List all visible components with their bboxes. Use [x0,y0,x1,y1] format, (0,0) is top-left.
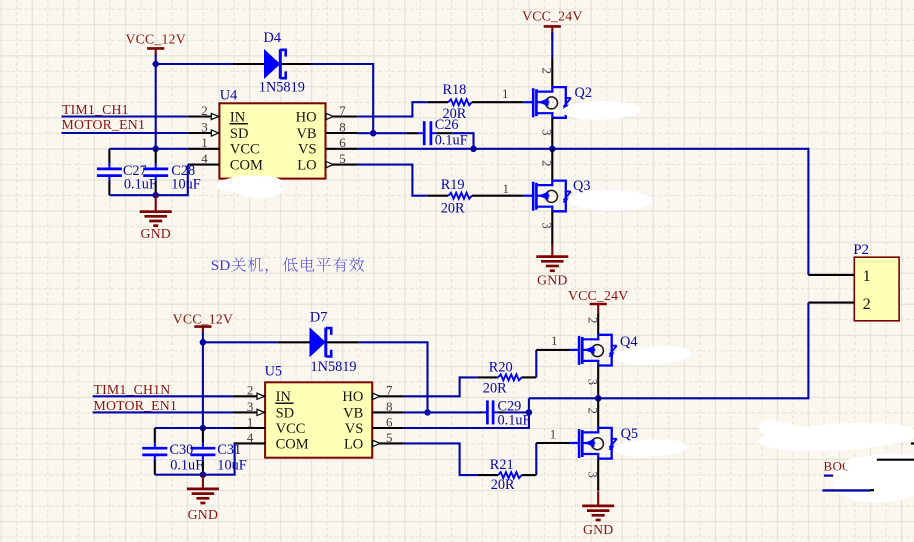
svg-text:VS: VS [298,142,317,158]
svg-text:P2: P2 [853,242,869,258]
junction Q2 source / Q3 drain [549,146,556,153]
svg-text:Q3: Q3 [573,178,590,194]
U4 pin names [230,109,317,173]
power VCC_12V (top) [125,32,185,64]
svg-text:LO: LO [344,436,363,452]
wire U4 LO to R19 [357,165,428,196]
transistor Q3 drain pin [551,149,553,181]
svg-text:C30: C30 [170,442,194,458]
gate pin number 1 of Q3 [502,181,509,196]
junction VB node [370,130,377,137]
svg-text:1: 1 [502,181,509,196]
svg-text:COM: COM [276,436,309,452]
svg-text:GND: GND [188,507,219,522]
wire VS phase node to P2 pin 1 [357,149,808,275]
P2 pin 1 [808,267,870,285]
junction Q4 source / Q5 drain [595,395,602,402]
svg-text:D4: D4 [264,30,281,46]
tick remnant (black) at end of navy line [870,489,874,491]
transistor Q3 [523,160,590,229]
wire D7 to VB node (bottom) [359,342,428,412]
U4 designator [220,88,237,104]
svg-text:1N5819: 1N5819 [259,80,305,96]
U5 designator [265,363,282,379]
svg-text:C26: C26 [435,117,459,133]
wire R20 to Q4 gate [535,350,537,378]
svg-text:VB: VB [343,405,363,421]
op-amp U5 gate driver [265,382,372,457]
P2 pin 2 [808,295,870,313]
resistor R21 20R [478,457,537,493]
wire TIM1_CH1 to U4 IN [62,115,188,117]
ground GND (top left) [140,195,172,241]
svg-text:20R: 20R [483,380,507,396]
diode D7 1N5819 [310,310,357,376]
svg-text:MOTOR_EN1: MOTOR_EN1 [62,117,146,132]
U5 pin numbers [247,383,393,445]
capacitor C29 0.1uF [479,398,531,428]
eraser blob under U4 [216,174,283,194]
svg-text:SD: SD [276,405,295,421]
gate pin number 1 of Q4 [551,333,558,348]
eraser blob over title text [844,457,880,473]
power VCC_24V (top) [522,8,582,57]
svg-text:MOTOR_EN1: MOTOR_EN1 [94,398,178,413]
wire VCC row to decoupling loop [109,148,187,150]
op-amp U4 gate driver [219,103,325,178]
svg-text:0.1uF: 0.1uF [435,132,468,148]
diode D4 1N5819 [259,30,305,95]
svg-text:VCC_12V: VCC_12V [173,311,233,326]
wire U4 VB to C26 [357,132,407,134]
junction C29/VS link [526,409,533,416]
line remnant (black) right edge [877,459,914,461]
svg-text:2: 2 [585,317,600,324]
eraser blob right of Q5 [614,438,689,458]
net label TIM1_CH1N [94,382,171,397]
svg-text:2: 2 [585,407,600,414]
transistor Q4 gate pin [536,349,569,351]
resistor R18 20R [428,82,523,122]
U4 pins [188,113,357,167]
svg-text:1: 1 [550,427,557,442]
U5 pin names [275,389,363,452]
svg-text:0.1uF: 0.1uF [170,457,203,473]
svg-text:R20: R20 [489,359,513,375]
svg-text:COM: COM [230,158,263,174]
net label TIM1_CH1 [62,102,129,117]
wire U4 HO to R18 [357,102,428,116]
svg-text:Q2: Q2 [575,85,592,101]
svg-text:R18: R18 [443,82,467,98]
svg-text:1: 1 [551,333,558,348]
U4 pin numbers [201,103,346,166]
resistor R19 20R [428,177,523,217]
svg-text:VCC: VCC [276,421,306,437]
svg-text:GND: GND [537,273,568,288]
transistor Q4 [569,317,637,385]
diode D4 anode pin [232,63,264,65]
wire VCC row to decoupling loop (bottom) [155,427,234,429]
wire VCC_12V rail down (bottom) [202,342,204,428]
eraser blob bottom right hook [755,416,818,451]
transistor Q2 drain pin [551,58,553,88]
diode D7 anode pin [278,341,310,343]
transistor Q3 source pin [551,211,553,245]
svg-text:10uF: 10uF [171,176,200,192]
svg-text:GND: GND [583,522,614,537]
eraser blob right of Q4 [614,344,693,367]
svg-text:20R: 20R [441,200,465,216]
transistor Q2 source pin [551,118,553,149]
svg-text:U5: U5 [265,363,282,379]
eraser blob right of Q3 [569,190,653,211]
junction GND loop bottom [200,471,207,478]
wire MOTOR_EN1 to U4 SD [62,132,188,134]
resistor R20 20R [478,359,537,396]
svg-text:C31: C31 [217,442,241,458]
capacitor C27 0.1uF [97,149,157,195]
svg-text:TIM1_CH1: TIM1_CH1 [62,102,129,117]
ground GND (Q3 source) [536,244,568,288]
wire D4 to VB node [312,64,374,133]
power VCC_24V (bottom) [568,288,628,314]
wire R21 to Q5 gate [535,443,537,475]
svg-text:HO: HO [342,389,363,405]
svg-text:2: 2 [540,67,555,74]
capacitor C26 0.1uF [407,117,468,149]
svg-text:VB: VB [296,126,316,142]
wire U5 HO to R20 [404,377,478,396]
wire TIM1_CH1N to U5 IN [93,395,234,397]
svg-text:SD: SD [230,126,249,142]
wire ground loop bottom (U5) [155,443,235,474]
svg-text:GND: GND [140,226,171,241]
svg-text:R21: R21 [490,457,514,473]
gate pin number 1 of Q2 [502,86,509,101]
wire MOTOR_EN1 to U5 SD [93,411,234,413]
net label MOTOR_EN1 (bottom) [94,398,178,413]
wire ground loop bottom [109,165,187,196]
transistor Q5 [569,407,638,477]
eraser blob bottom right band [757,419,914,454]
svg-text:HO: HO [296,109,317,125]
wire P2 pin 2 to bottom phase node [529,303,809,399]
svg-text:2: 2 [863,295,871,313]
ground GND (bottom left) [187,475,219,522]
svg-text:0.1uF: 0.1uF [498,413,531,429]
gate pin number 1 of Q5 [550,427,557,442]
svg-text:LO: LO [297,158,316,174]
U5 pins [234,393,404,446]
svg-text:1N5819: 1N5819 [311,359,357,375]
wire VCC_12V rail down to VCC row [155,64,157,149]
connector P2 [853,242,899,321]
eraser blob bottom right lobe [830,450,914,507]
svg-text:D7: D7 [310,310,327,326]
eraser blob under U4 lower [239,183,284,199]
junction VCC rail / pin1 row [152,146,159,153]
svg-text:10uF: 10uF [217,457,246,473]
svg-text:20R: 20R [491,477,515,493]
net label MOTOR_EN1 [62,117,146,132]
svg-text:U4: U4 [220,88,237,104]
wire U5 VS to phase link [404,398,529,428]
wire C26 to VS node [452,133,473,149]
wire C29 to VS link [503,411,529,413]
transistor Q5 gate pin [536,442,569,444]
transistor Q5 drain pin [597,398,599,428]
wire U5 LO to R21 [404,443,478,475]
svg-text:SD: SD [211,257,230,274]
note SD shutdown chinese text [211,257,364,274]
transistor Q4 drain pin [597,314,599,335]
dash remnant right edge [911,442,914,444]
svg-text:VCC_12V: VCC_12V [125,32,185,47]
underline remnant under BO [824,475,833,477]
wire VCC_12V to D4 anode [156,63,233,65]
svg-text:2: 2 [540,160,555,167]
wire VCC_12V to D7 anode [203,341,278,343]
transistor Q5 source pin [597,459,599,491]
junction GND loop [152,192,159,199]
transistor Q2 [523,67,592,135]
svg-text:VCC_24V: VCC_24V [522,8,582,23]
junction VCC rail bottom [200,425,207,432]
junction VCC_12V bottom [200,339,207,346]
capacitor C30 0.1uF [142,428,203,475]
wire U5 VB to C29 [404,411,479,413]
line remnant (navy) bottom right [822,489,870,491]
svg-text:IN: IN [230,109,246,125]
svg-text:Q4: Q4 [620,334,637,350]
svg-text:R19: R19 [441,177,465,193]
svg-text:VCC_24V: VCC_24V [568,288,628,303]
svg-text:1: 1 [502,86,509,101]
junction VB node bottom [424,409,431,416]
ground GND (Q5 source) [582,491,614,537]
transistor Q4 source pin [597,366,599,399]
svg-text:VCC: VCC [230,142,260,158]
capacitor C31 10uF [190,428,246,475]
junction VCC_12V [152,61,159,68]
svg-text:0.1uF: 0.1uF [124,176,157,192]
diode D4 cathode pin [281,63,312,65]
capacitor C28 10uF [143,149,201,195]
power VCC_12V (bottom) [173,311,233,342]
svg-text:Q5: Q5 [621,426,638,442]
title text BOO remnant [824,459,860,474]
junction C26/VS [470,146,477,153]
svg-text:VS: VS [345,421,364,437]
svg-text:1: 1 [863,267,871,285]
eraser blob right of Q2 [562,101,641,121]
svg-text:TIM1_CH1N: TIM1_CH1N [94,382,171,397]
diode D7 cathode pin [327,341,359,343]
